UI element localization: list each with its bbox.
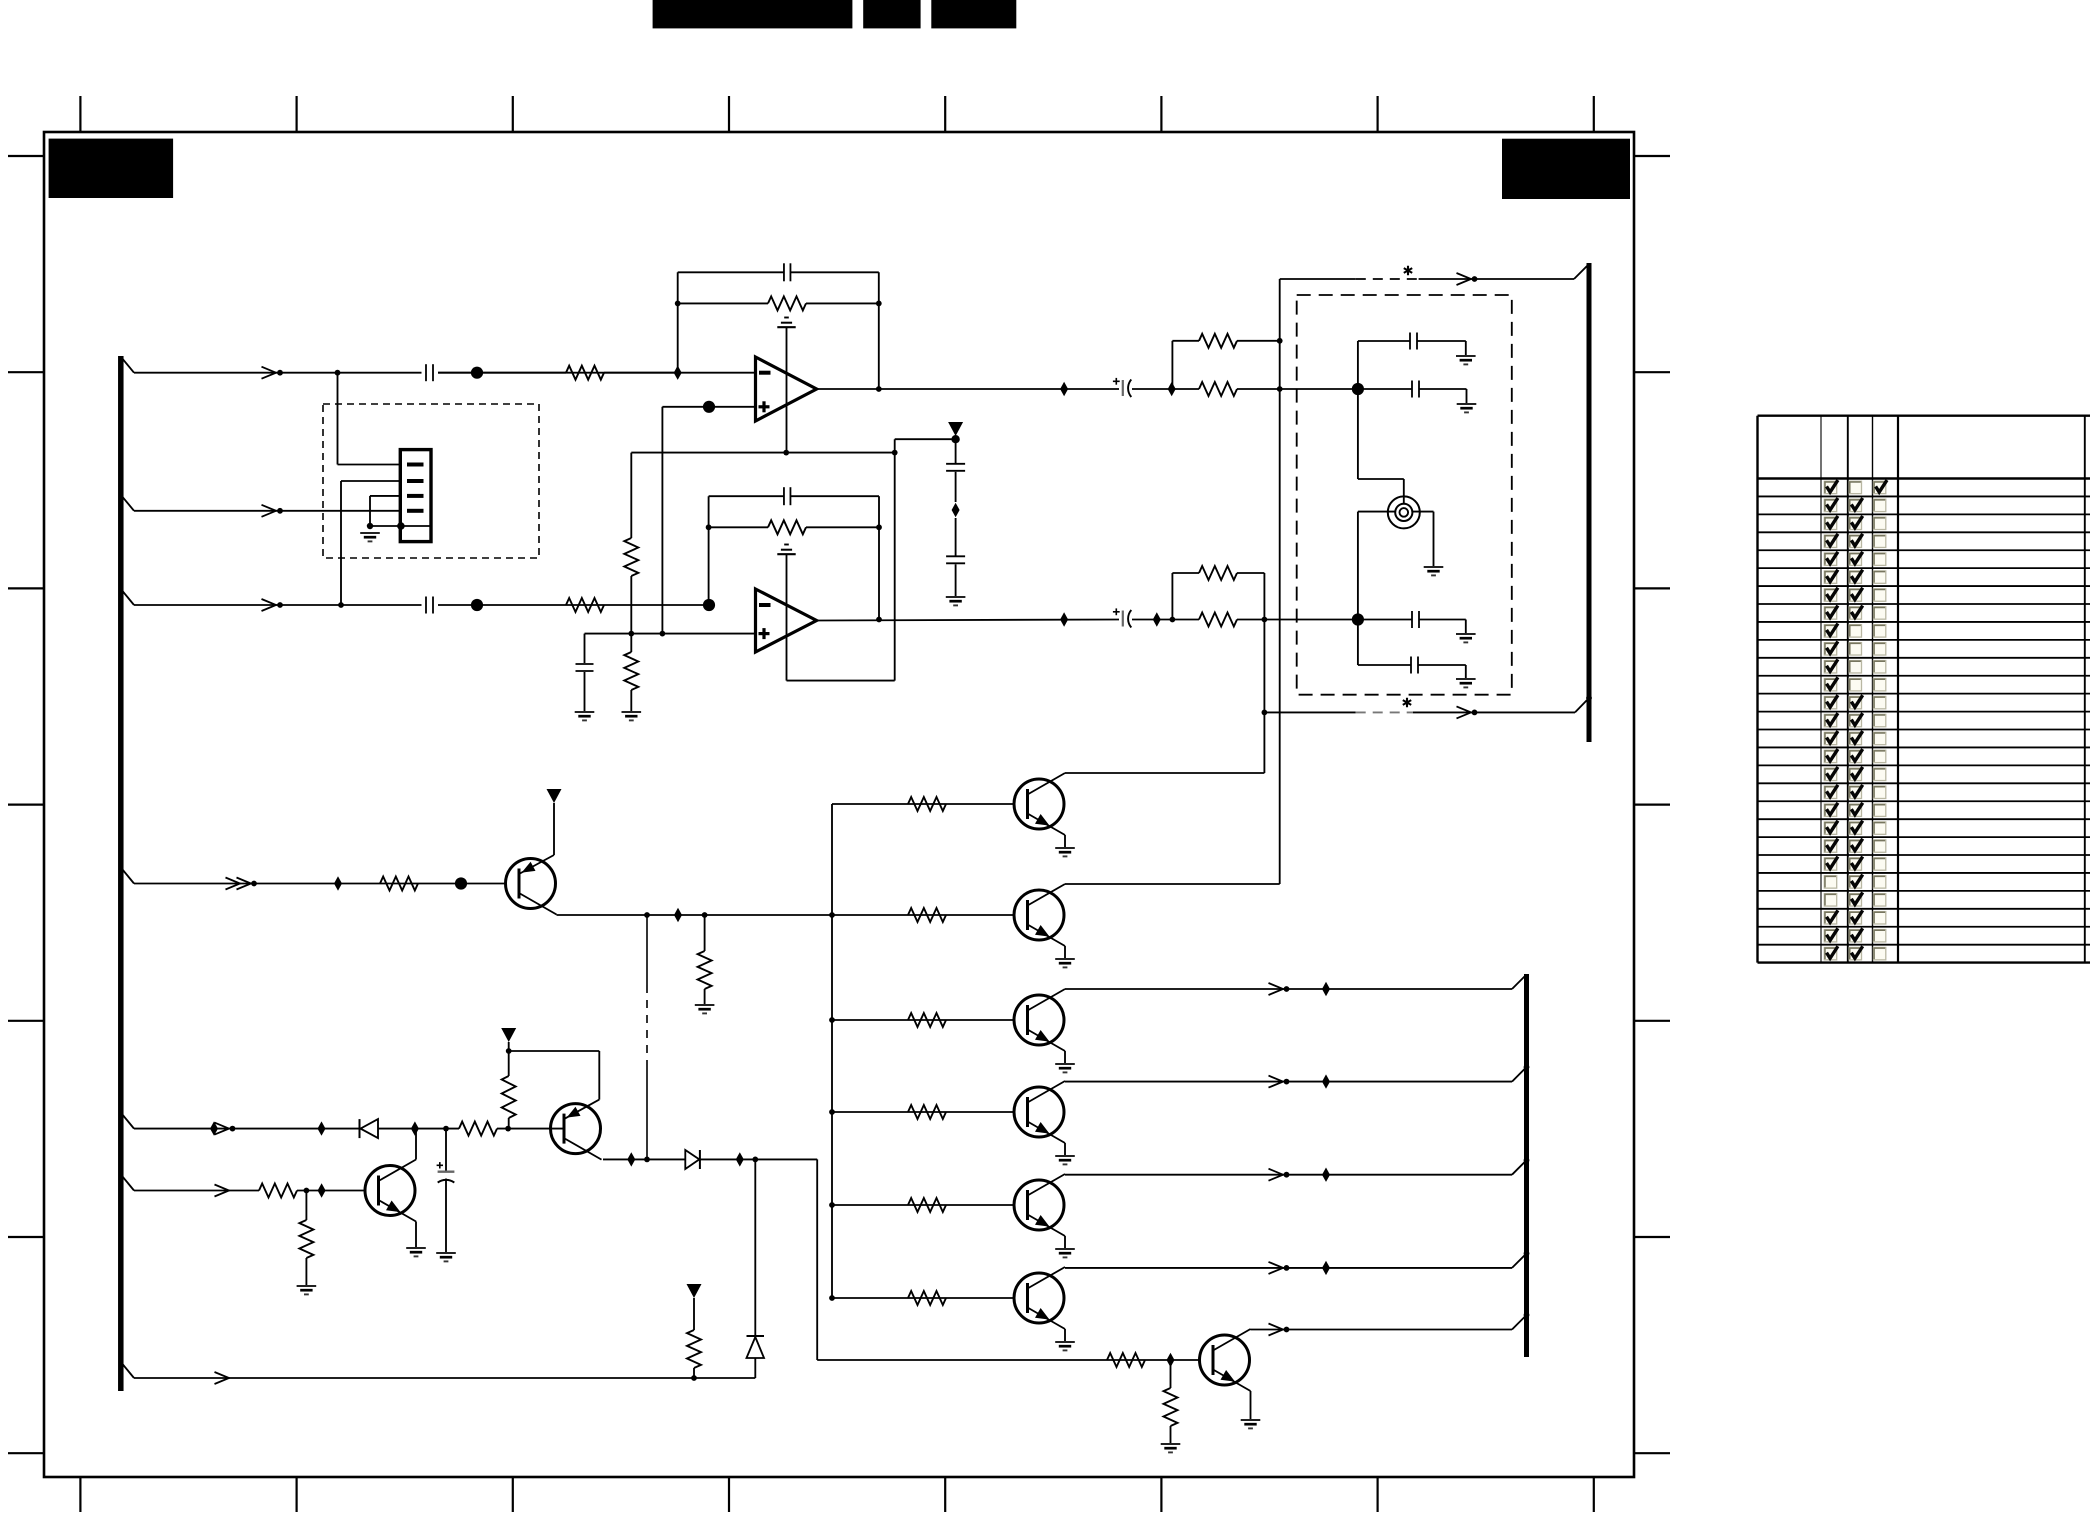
diamond [1322, 1074, 1330, 1088]
wire input 2 [134, 510, 400, 512]
ground connector [360, 532, 380, 534]
transistor Q1 (PNP) [506, 859, 556, 909]
diamond [318, 1183, 326, 1197]
title block small box 2 (redacted) [931, 0, 1016, 28]
diagonal to bus [1512, 1253, 1527, 1268]
diamond [210, 1121, 218, 1135]
output bus bar lower right [1524, 974, 1529, 1357]
connector J1 body [400, 450, 431, 542]
node U2 output feedback [876, 617, 882, 623]
T3 emitter ground wire [1064, 1051, 1066, 1064]
diamond Qe base [1167, 1353, 1175, 1367]
node [1262, 710, 1268, 716]
power pin wire U2 [786, 554, 788, 680]
op-amp U1 [756, 357, 817, 421]
resistor R16 (wire6 to gnd) [305, 1191, 307, 1221]
table row 13 checkboxes [1824, 696, 1836, 708]
resistor R18 (Qe base) [1107, 1353, 1145, 1367]
ground C10 [1456, 355, 1476, 357]
T4 base row [832, 1111, 1015, 1113]
diagonal to bus [1574, 264, 1589, 279]
node wire1/connector [335, 370, 341, 376]
arrow [215, 1185, 230, 1197]
node wire3/connector [338, 602, 344, 608]
capacitor C6 [955, 439, 957, 463]
table row 15 checkboxes [1824, 732, 1836, 744]
feedback resistor row U1 [678, 302, 768, 304]
wire + input down to U2 + [661, 407, 663, 634]
table row 26 checkboxes [1824, 930, 1836, 942]
node [1262, 617, 1268, 623]
wire Q2 emitter loop [509, 1050, 600, 1052]
node Q2 base [505, 1126, 511, 1132]
resistor R12 (t1 base) [908, 797, 946, 811]
table row 8 checkboxes [1824, 607, 1836, 619]
table row 5 checkboxes [1824, 553, 1836, 565]
feedback loop left vertical U2 [708, 496, 710, 605]
node bus [1586, 695, 1592, 701]
node Q1 base [455, 877, 467, 889]
wire down [1465, 341, 1467, 356]
diamond [1322, 982, 1330, 996]
capacitor C10 [1409, 333, 1411, 350]
power symbol U2 [784, 544, 789, 546]
node bus [1524, 1064, 1530, 1070]
resistor R7 [1199, 566, 1237, 580]
power symbol U1 [784, 317, 789, 319]
arrow [1457, 273, 1472, 285]
arrow wire1 [262, 367, 277, 379]
node [706, 524, 712, 530]
diamond [674, 908, 682, 922]
wire down [1465, 620, 1467, 635]
table row 14 checkboxes [1824, 714, 1836, 726]
transistor T2 (NPN) [1014, 890, 1064, 940]
table row 1 checkboxes [1824, 481, 1836, 493]
wire * bottom (y=712.4) [1264, 711, 1355, 713]
node base bus [829, 912, 835, 918]
T6 collector output row [1065, 1267, 1512, 1269]
ground Q3 [406, 1247, 426, 1249]
diamond [736, 1152, 744, 1166]
drawing border frame [44, 132, 1634, 1477]
T5 collector output row [1065, 1174, 1512, 1176]
node [628, 631, 634, 637]
T3 base row [832, 1019, 1015, 1021]
wire gun right lead [1412, 511, 1433, 513]
transistor T6 (NPN) [1014, 1273, 1064, 1323]
resistor R2 (wire3) [566, 598, 604, 612]
wire input 4 [134, 883, 506, 885]
table row 3 checkboxes [1824, 517, 1836, 529]
electrolytic C8 (+ output1) [1113, 380, 1120, 382]
wire input 1 [134, 372, 422, 374]
wire Q1 emitter to V2 [553, 803, 555, 855]
ground R19 [1161, 1443, 1181, 1445]
T3 collector output row [1065, 988, 1512, 990]
resistor R17 (V4 to wire7) [693, 1298, 695, 1330]
wire stub from bus [121, 1113, 134, 1129]
feedback wire top U2 [709, 495, 784, 497]
resistor R5 [1199, 334, 1237, 348]
node [675, 301, 681, 307]
ground Qe [1241, 1419, 1261, 1421]
resistor R9 (wire4) [380, 877, 418, 891]
ground T1 [1055, 847, 1075, 849]
node big dot wire3 [471, 599, 483, 611]
diode D1 (cathode left) [359, 1119, 361, 1138]
arrow [1457, 706, 1472, 718]
diagonal to bus [1512, 975, 1527, 990]
node bus [1524, 1157, 1530, 1163]
ground gun [1424, 566, 1444, 568]
table row 10 checkboxes [1824, 643, 1836, 655]
wire pin5 [370, 525, 430, 527]
title block bar (redacted) [653, 0, 853, 28]
table row 6 checkboxes [1824, 571, 1836, 583]
Qe base feed row [817, 1359, 1200, 1361]
node [702, 912, 708, 918]
node T4 base [829, 1109, 835, 1115]
transistor T4 (NPN) [1014, 1087, 1064, 1137]
node bus [1524, 1251, 1530, 1257]
CRT gun connector (concentric circles) [1388, 496, 1420, 528]
wire stub from bus [121, 495, 134, 511]
CRT assembly (dashed box) [1297, 295, 1512, 695]
diamond [627, 1152, 635, 1166]
capacitor C13 [1410, 657, 1412, 674]
capacitor C12 [1411, 611, 1413, 628]
node C14 [443, 1126, 449, 1132]
T4 emitter ground wire [1064, 1143, 1066, 1156]
node [1277, 386, 1283, 392]
feedback loop right vertical U2 [878, 496, 880, 619]
resistor chain x=631 upper [630, 453, 632, 538]
arrow [1269, 1324, 1284, 1336]
wire Q1 collector row (y=915) [557, 914, 1015, 916]
node [951, 435, 959, 443]
diode D3 (to wire7) [754, 1159, 756, 1336]
output bus bar upper right [1587, 263, 1592, 742]
table row 22 checkboxes [1824, 858, 1836, 870]
wire input 5 [134, 1128, 360, 1130]
arrow [1269, 1262, 1284, 1274]
border tick marks left [8, 155, 44, 157]
resistor chain x=631 lower [624, 652, 638, 690]
table row 11 checkboxes [1824, 661, 1836, 673]
wire U1 output [817, 388, 1119, 390]
node [304, 1188, 310, 1194]
wire stub from bus [121, 357, 134, 373]
power flag V3 [501, 1028, 516, 1042]
vertical x=1172.4 lower group [1171, 573, 1173, 620]
dashed link x=647 [646, 915, 648, 985]
ground C5 [575, 711, 595, 713]
table row 18 checkboxes [1824, 786, 1836, 798]
power flag V4 [687, 1284, 702, 1298]
black box top-left (redacted title) [49, 139, 174, 198]
wire * top (y=279) [1280, 278, 1356, 280]
wire pin3 to ground [370, 495, 400, 497]
resistor R19 (Qe base to gnd) [1170, 1360, 1172, 1388]
diamond [1322, 1261, 1330, 1275]
node [644, 1157, 650, 1163]
node T3 base [829, 1017, 835, 1023]
diode D2 (anode left) [685, 1150, 699, 1169]
node diamond wire1 / U1 inverting input [674, 366, 682, 380]
diamond node [952, 503, 960, 517]
diamond U1 out [1060, 382, 1068, 396]
diamond U2 out [1060, 612, 1068, 626]
connector J1 pin bars [407, 463, 424, 467]
arrow [215, 1372, 230, 1384]
diode row wire [603, 1158, 685, 1160]
table row 4 checkboxes [1824, 535, 1836, 547]
table row 2 checkboxes [1824, 499, 1836, 511]
table row 21 checkboxes [1824, 840, 1836, 852]
T4 collector output row [1065, 1081, 1512, 1083]
ground T2 [1055, 958, 1075, 960]
wire resistor row upper (y=340.8) [1172, 340, 1199, 342]
electrolytic C14 (wire5 to gnd) [445, 1129, 447, 1172]
vertical inside box ch1 [1357, 341, 1359, 479]
T5 base row [832, 1204, 1015, 1206]
node pin5 gnd [367, 523, 373, 529]
wire down [1466, 389, 1468, 404]
ground T4 [1055, 1155, 1075, 1157]
wire cap row 3 [1358, 619, 1412, 621]
wire U2 bottom loop [787, 680, 895, 682]
resistor (T3 base) [908, 1013, 946, 1027]
wire stub from bus [121, 1175, 134, 1191]
border tick marks top [79, 96, 81, 132]
table row 9 checkboxes [1824, 625, 1836, 637]
wire cap row 2 [1358, 388, 1412, 390]
wire to Qe base riser [816, 1159, 818, 1360]
resistor R4 (U2 feedback) [768, 520, 806, 534]
wire U2 output [817, 620, 1119, 621]
node [892, 450, 898, 456]
ground C12 [1456, 633, 1476, 635]
ground T6 [1055, 1341, 1075, 1343]
table row 23 checkboxes [1824, 876, 1836, 888]
wire input 3 [134, 604, 422, 606]
arrow [215, 1123, 230, 1135]
star symbol bottom [1403, 698, 1411, 708]
diamond wire4 [334, 876, 342, 890]
resistor R13 (Q2 base) [459, 1122, 497, 1136]
ground R10 [695, 1004, 715, 1006]
wire from U2 loop to supply node [895, 438, 956, 440]
Q3 emitter ground [415, 1222, 417, 1249]
wire stub from bus [121, 1362, 134, 1378]
arrow [1269, 983, 1284, 995]
feedback loop right vertical U1 [878, 272, 880, 389]
resistor (T4 base) [908, 1105, 946, 1119]
diamond [318, 1121, 326, 1135]
wire down [1465, 665, 1467, 679]
diamond after C8 [1168, 382, 1176, 396]
capacitor C5 (U2 + input to gnd) [584, 634, 586, 663]
base bus vertical x=832 [831, 804, 833, 1298]
node [644, 912, 650, 918]
diagonal to bus [1575, 698, 1589, 712]
wire input 6 [134, 1190, 259, 1192]
T2 emitter ground wire [1064, 946, 1066, 959]
feedback loop left vertical U1 [677, 272, 679, 372]
transistor T1 (NPN) [1014, 779, 1064, 829]
wire V3 node [508, 1042, 510, 1076]
diagonal to bus [1512, 1160, 1527, 1175]
transistor T3 (NPN) [1014, 995, 1064, 1045]
node [1170, 617, 1176, 623]
transistor T5 (NPN) [1014, 1180, 1064, 1230]
ground T5 [1055, 1248, 1075, 1250]
wire to CRT box ch2 [1237, 619, 1358, 621]
table row 12 checkboxes [1824, 678, 1836, 690]
border tick marks bottom [79, 1477, 81, 1512]
node ch1 [1352, 383, 1364, 395]
feedback resistor row U2 [709, 526, 768, 528]
table row 27 checkboxes [1824, 947, 1836, 959]
capacitor C4 (U2 feedback) [783, 487, 785, 505]
power flag V2 [547, 789, 562, 803]
Qe emitter ground [1250, 1391, 1252, 1420]
ground C11 [1457, 403, 1477, 405]
ground R16 [297, 1285, 317, 1287]
wire bias row (y=452.6) [631, 452, 894, 454]
vertical x=1264.4 (t1 collector riser) [1263, 620, 1265, 774]
resistor R10 to gnd [704, 915, 706, 951]
node U1 pin4 [783, 450, 789, 456]
node big dot wire1 [471, 367, 483, 379]
power pin wire U1 (through symbol) [786, 327, 788, 452]
ground C14 [436, 1252, 456, 1254]
electrolytic C9 (+ output2) [1113, 611, 1120, 613]
table row 7 checkboxes [1824, 589, 1836, 601]
table row 20 checkboxes [1824, 822, 1836, 834]
double arrow wire4 [226, 878, 241, 890]
Qe collector output row [1251, 1329, 1513, 1331]
wire cap row 4 [1358, 664, 1411, 666]
black box top-right (redacted title) [1502, 139, 1630, 199]
T1 emitter ground wire [1064, 835, 1066, 848]
feedback wire top U1 [678, 271, 784, 273]
t1 base row [832, 803, 1015, 805]
wire down to node [1263, 573, 1265, 620]
resistor R8 (output2) [1199, 613, 1237, 627]
vertical x=1172.4 upper group [1171, 341, 1173, 389]
wire input 7 [134, 1377, 755, 1379]
resistor R14 (V3 to base) [502, 1076, 516, 1118]
node [1277, 338, 1283, 344]
diamond [1322, 1168, 1330, 1182]
capacitor C3 (U1 feedback) [783, 263, 785, 281]
node U1 output feedback [876, 386, 882, 392]
resistor R3 (U1 feedback) [768, 296, 806, 310]
transistor Qe (NPN) [1200, 1335, 1250, 1385]
ground T3 [1055, 1063, 1075, 1065]
transistor Q3 (NPN) [365, 1166, 415, 1216]
node [691, 1375, 697, 1381]
resistor R11 (t2 base) [908, 908, 946, 922]
resistor R15 (wire6) [259, 1184, 297, 1198]
table row 24 checkboxes [1824, 894, 1836, 906]
op-amp U2 [756, 589, 817, 652]
T5 emitter ground wire [1064, 1236, 1066, 1249]
Q3 collector wire to wire5 [415, 1129, 417, 1160]
wire pin1 to wire1 [338, 464, 401, 466]
wire U2 noninverting input [585, 633, 756, 635]
node U2 inverting input [703, 599, 715, 611]
table row 19 checkboxes [1824, 804, 1836, 816]
wire gun left lead [1358, 511, 1396, 513]
ground x=631 [622, 711, 642, 713]
node T6 base [829, 1295, 835, 1301]
table row 16 checkboxes [1824, 750, 1836, 762]
diamond after C9 [1153, 612, 1161, 626]
arrow [1269, 1169, 1284, 1181]
border tick marks right [1634, 155, 1670, 157]
wire cap row 1 [1358, 340, 1410, 342]
resistor R1 (wire1) [438, 372, 566, 374]
capacitor C1 (input wire1) [425, 364, 427, 381]
node [752, 1157, 758, 1163]
T2 collector wire [1065, 883, 1280, 885]
parts table [1758, 416, 2090, 963]
ground cap chain [946, 596, 966, 598]
wire resistor row lower (y=573) [1172, 572, 1199, 574]
resistor (T5 base) [908, 1198, 946, 1212]
title block small box 1 (redacted) [863, 0, 920, 28]
wire stub from bus [121, 589, 134, 605]
node [660, 631, 666, 637]
connector J1 shield (dashed box) [323, 404, 539, 558]
diagonal to bus [1512, 1067, 1527, 1082]
diagonal to bus [1512, 1315, 1527, 1330]
wire to CRT box ch1 [1237, 388, 1358, 390]
wire U1 noninverting input [662, 406, 755, 408]
table row 17 checkboxes [1824, 768, 1836, 780]
node T5 base [829, 1202, 835, 1208]
T6 emitter ground wire [1064, 1329, 1066, 1342]
node bus [1524, 1312, 1530, 1318]
node U1 + input [703, 401, 715, 413]
resistor R6 (output1) [1199, 382, 1237, 396]
capacitor C11 [1411, 381, 1413, 398]
arrow wire2 [262, 505, 277, 517]
capacitor C7 [955, 518, 957, 556]
T6 base row [832, 1297, 1015, 1299]
wire pin2 to wire3 [341, 480, 400, 482]
arrow wire3 [262, 599, 277, 611]
capacitor C2 (input wire3) [425, 597, 427, 614]
star symbol top [1404, 266, 1412, 276]
transistor Q2 (PNP) [551, 1104, 601, 1154]
resistor (T6 base) [908, 1291, 946, 1305]
wire bend to gun [1358, 478, 1404, 480]
T1 collector wire [1065, 772, 1264, 774]
table row 25 checkboxes [1824, 912, 1836, 924]
ground C13 [1456, 678, 1476, 680]
arrow [1269, 1076, 1284, 1088]
power flag V1 (down triangle) [948, 422, 963, 436]
vertical x=1279.7 (t2 collector riser) [1279, 279, 1281, 884]
node ch2 [1352, 613, 1364, 625]
diamond / T collector node [411, 1121, 419, 1135]
input bus bar (left) [118, 356, 124, 1391]
wire stub from bus [121, 868, 134, 884]
